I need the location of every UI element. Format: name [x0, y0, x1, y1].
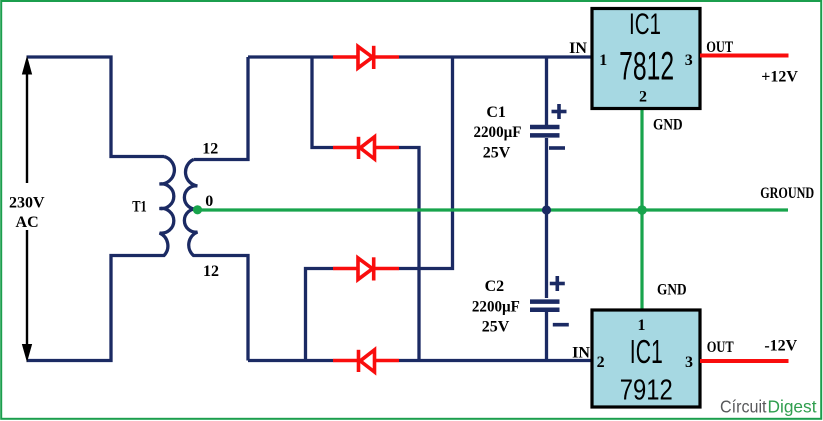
- svg-text:IN: IN: [569, 40, 587, 57]
- svg-text:C2: C2: [485, 278, 505, 295]
- svg-text:GND: GND: [657, 281, 687, 298]
- svg-text:2: 2: [597, 354, 605, 371]
- svg-text:1: 1: [638, 317, 646, 334]
- svg-text:C1: C1: [486, 104, 506, 121]
- svg-text:3: 3: [685, 354, 693, 371]
- svg-text:AC: AC: [16, 214, 39, 231]
- svg-text:2200µF: 2200µF: [472, 299, 520, 316]
- svg-text:GROUND: GROUND: [760, 185, 814, 202]
- svg-text:2: 2: [639, 89, 647, 106]
- svg-text:OUT: OUT: [707, 339, 734, 356]
- svg-text:230V: 230V: [9, 195, 45, 212]
- svg-text:IC1: IC1: [630, 333, 663, 370]
- svg-text:GND: GND: [653, 116, 683, 133]
- svg-text:Digest: Digest: [768, 397, 817, 417]
- svg-text:-12V: -12V: [764, 338, 797, 355]
- svg-text:+12V: +12V: [761, 69, 798, 86]
- svg-text:T1: T1: [132, 199, 147, 216]
- svg-text:3: 3: [685, 52, 693, 69]
- svg-text:25V: 25V: [482, 318, 510, 335]
- svg-text:IC1: IC1: [629, 8, 661, 41]
- svg-text:OUT: OUT: [706, 39, 733, 56]
- svg-text:7812: 7812: [619, 45, 674, 89]
- svg-text:25V: 25V: [483, 145, 511, 162]
- svg-text:12: 12: [202, 141, 218, 158]
- svg-text:2200µF: 2200µF: [474, 124, 522, 141]
- svg-text:7912: 7912: [620, 375, 673, 407]
- svg-text:1: 1: [599, 52, 607, 69]
- svg-text:12: 12: [203, 263, 219, 280]
- svg-text:Círcuit: Círcuit: [720, 397, 767, 417]
- svg-text:IN: IN: [572, 345, 590, 362]
- svg-text:0: 0: [205, 193, 213, 210]
